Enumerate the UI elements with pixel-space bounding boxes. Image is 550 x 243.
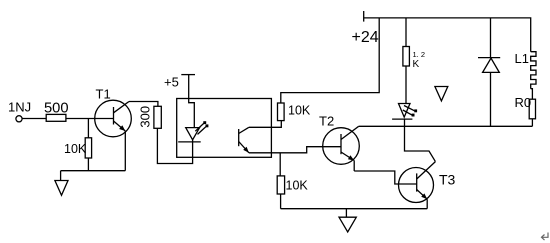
wire [279, 153, 281, 176]
return glyph artifact [542, 233, 549, 241]
resistor 300 [154, 106, 161, 128]
wire [249, 147, 341, 153]
LED indicator [392, 104, 417, 120]
input terminal INJ [16, 116, 22, 122]
wire +24 top rail [364, 18, 531, 52]
wire [281, 18, 379, 103]
wire [87, 119, 89, 138]
resistor 1.2K [403, 47, 410, 67]
wire [124, 131, 126, 171]
wire [66, 118, 114, 120]
svg-text:10K: 10K [286, 179, 309, 193]
svg-text:300: 300 [137, 106, 152, 128]
symbol triangle marker [435, 87, 448, 101]
svg-text:1. 2: 1. 2 [413, 50, 426, 59]
svg-text:1NJ: 1NJ [8, 100, 31, 115]
wire ground rail [281, 208, 428, 210]
resistor 10K base T2 [277, 176, 284, 194]
wire [129, 102, 158, 107]
svg-text:10K: 10K [64, 142, 87, 156]
wire [280, 194, 282, 209]
ground [55, 171, 68, 196]
svg-text:+24: +24 [352, 29, 379, 46]
svg-text:L1: L1 [515, 51, 529, 66]
ground [339, 209, 356, 232]
wire [22, 118, 46, 120]
LED U1 emitter diode [178, 121, 208, 142]
resistor 500 [46, 114, 66, 121]
wire [354, 171, 417, 184]
wire [249, 121, 281, 128]
resistor 10K collector pull-up [278, 103, 285, 121]
wire [426, 199, 428, 209]
wire [189, 99, 195, 128]
power +24 [352, 11, 379, 46]
svg-text:+5: +5 [164, 74, 179, 89]
wire [61, 170, 126, 172]
power +5 [164, 74, 195, 98]
transistor T2 [319, 114, 359, 165]
svg-text:T2: T2 [319, 114, 334, 129]
wire [353, 161, 355, 172]
wire [157, 128, 192, 163]
transistor T1 [95, 87, 132, 137]
wire [405, 119, 436, 162]
wire [405, 18, 407, 47]
resistor 10K base T1 [85, 138, 91, 158]
optocoupler U1 box [177, 99, 272, 158]
wire relay drive rail [359, 125, 533, 127]
svg-text:K: K [413, 59, 420, 70]
value label 1.2K [413, 50, 426, 70]
phototransistor U1 [239, 127, 249, 153]
svg-text:T1: T1 [96, 87, 111, 102]
inductor L1 relay coil [515, 51, 537, 89]
svg-text:T3: T3 [439, 172, 456, 188]
wire [87, 158, 89, 171]
wire [531, 89, 533, 100]
svg-text:10K: 10K [288, 104, 311, 118]
resistor R0 [529, 99, 535, 119]
wire [531, 119, 533, 127]
transistor T3 [399, 162, 456, 203]
wire [405, 66, 407, 104]
diode D1 flyback [478, 18, 500, 126]
